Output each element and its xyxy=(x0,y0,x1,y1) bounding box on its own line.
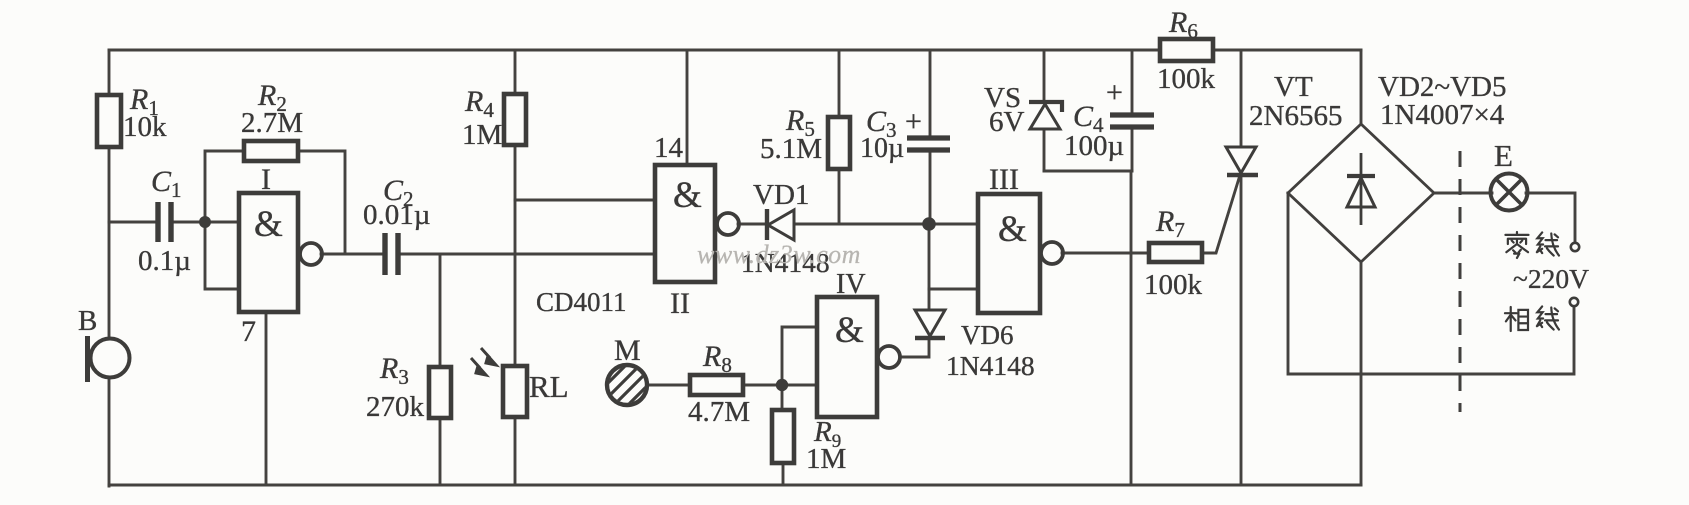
wire VD6 to gate IV output wire xyxy=(900,338,929,357)
svg-text:2.7M: 2.7M xyxy=(241,107,303,139)
wire bridge bottom vertex to bottom rail xyxy=(1360,262,1363,485)
wire pin 7 xyxy=(265,312,268,485)
wire R3 to bottom rail xyxy=(439,418,442,485)
svg-text:III: III xyxy=(989,163,1019,196)
wire R5 top xyxy=(838,50,841,117)
wire bridge right vertex to lamp xyxy=(1434,192,1492,195)
svg-text:1M: 1M xyxy=(806,443,846,475)
motion sensor M xyxy=(595,364,652,414)
svg-text:100k: 100k xyxy=(1157,63,1216,95)
svg-text:E: E xyxy=(1494,138,1513,173)
wire gate IV lower input xyxy=(782,384,817,387)
bridge inner diode xyxy=(1347,153,1375,225)
svg-text:4.7M: 4.7M xyxy=(688,396,750,428)
svg-text:5.1M: 5.1M xyxy=(760,133,822,165)
svg-text:270k: 270k xyxy=(366,391,425,423)
svg-text:CD4011: CD4011 xyxy=(536,287,627,317)
wire node B down to VD6 xyxy=(928,224,931,310)
diode VD1 xyxy=(767,209,794,240)
svg-text:M: M xyxy=(614,334,641,367)
wire VD1 to gate III upper input xyxy=(794,223,978,226)
svg-text:+: + xyxy=(1106,76,1123,109)
svg-text:100k: 100k xyxy=(1144,269,1203,301)
wire left node to C1 xyxy=(109,221,156,224)
capacitor C1 xyxy=(158,202,171,242)
svg-text:B: B xyxy=(78,305,97,337)
wire bridge top vertex xyxy=(1360,50,1363,124)
wire ground drop to bottom rail xyxy=(1130,171,1133,485)
resistor R7 xyxy=(1149,243,1202,262)
node A junction dot xyxy=(199,216,211,228)
resistor R2 xyxy=(244,141,298,161)
wire live terminal to bridge left vertex xyxy=(1288,193,1574,374)
svg-text:VT: VT xyxy=(1274,71,1313,103)
svg-text:14: 14 xyxy=(654,132,684,164)
svg-text:0.01µ: 0.01µ xyxy=(363,199,430,231)
photoresistor RL body xyxy=(503,366,527,417)
svg-text:&: & xyxy=(254,204,283,245)
wire VS bottom xyxy=(1043,129,1046,171)
resistor R9 xyxy=(772,410,794,463)
nand gate IV box xyxy=(817,297,877,417)
wire node A down to gate I lower input xyxy=(205,222,239,289)
wire gate III lower input xyxy=(929,288,978,291)
diode VD6 xyxy=(915,310,945,338)
resistor R8 xyxy=(690,375,743,395)
resistor R1 xyxy=(97,95,121,147)
wire R1 bottom to microphone xyxy=(108,147,111,339)
wire M to R8 xyxy=(647,384,690,387)
nand gate III bubble xyxy=(1041,242,1063,264)
svg-text:1N4007×4: 1N4007×4 xyxy=(1380,99,1505,131)
svg-text:6V: 6V xyxy=(989,106,1025,138)
svg-text:100µ: 100µ xyxy=(1064,130,1124,162)
svg-text:RL: RL xyxy=(529,369,569,404)
resistor R6 xyxy=(1160,39,1213,61)
wire divider node to gate II upper input xyxy=(515,199,655,202)
wire VT anode from top rail xyxy=(1240,50,1243,147)
wire C2 to gate II lower input xyxy=(399,253,655,256)
wire bottom rail xyxy=(109,484,1361,487)
wire R8 to node C xyxy=(743,384,782,387)
svg-text:II: II xyxy=(670,287,690,320)
microphone B xyxy=(88,336,130,382)
wire microphone to bottom rail xyxy=(108,377,111,486)
resistor R3 xyxy=(429,367,451,418)
zener diode VS xyxy=(1029,102,1062,129)
svg-text:10µ: 10µ xyxy=(860,133,904,164)
wire VT cathode to bottom rail xyxy=(1240,175,1243,485)
wire C3 top xyxy=(929,50,932,136)
svg-text:VD1: VD1 xyxy=(753,179,809,211)
svg-text:0.1µ: 0.1µ xyxy=(138,245,191,277)
node C junction dot xyxy=(776,379,788,391)
wire top rail right xyxy=(1213,49,1361,52)
wire R9 to bottom rail xyxy=(782,463,785,485)
wire R7 to thyristor gate xyxy=(1202,175,1240,253)
label lingxian neutral xyxy=(1505,232,1559,258)
svg-text:10k: 10k xyxy=(123,111,167,143)
wire node C down to R9 xyxy=(781,385,784,410)
svg-text:1M: 1M xyxy=(462,119,502,151)
svg-text:1N4148: 1N4148 xyxy=(946,350,1035,381)
wire R4 top xyxy=(514,50,517,94)
wire VS top xyxy=(1043,50,1046,102)
nand gate III box xyxy=(978,194,1040,313)
wire top rail left xyxy=(109,49,1160,52)
svg-text:7: 7 xyxy=(241,315,256,348)
wire R4 to RL xyxy=(514,145,517,366)
capacitor C2 xyxy=(385,233,398,275)
svg-text:&: & xyxy=(673,175,702,216)
wire RL to bottom rail xyxy=(514,417,517,485)
bridge rectifier VD2~VD5 diamond xyxy=(1288,124,1434,262)
wire R2 right to output node xyxy=(298,151,345,254)
svg-text:+: + xyxy=(905,105,922,138)
wire gate III output to R7 xyxy=(1062,252,1149,255)
dashed separation line xyxy=(1459,151,1462,412)
wire C4 bottom xyxy=(1131,129,1134,171)
svg-text:2N6565: 2N6565 xyxy=(1249,100,1342,132)
wire gate IV upper input xyxy=(782,327,817,385)
nand gate IV bubble xyxy=(878,346,900,368)
lamp E xyxy=(1491,174,1528,211)
wire lamp to neutral terminal xyxy=(1526,193,1575,242)
label xiangxian live xyxy=(1505,306,1559,330)
svg-text:~220V: ~220V xyxy=(1513,263,1589,294)
wire top-left corner down to R1 xyxy=(108,50,111,95)
nand gate I box xyxy=(239,193,298,312)
node B junction dot xyxy=(922,217,936,231)
svg-text:IV: IV xyxy=(836,269,866,300)
resistor R5 xyxy=(828,117,850,169)
wire node A up to R2 xyxy=(205,151,244,222)
wire gate I output to C2 xyxy=(321,253,385,256)
svg-text:&: & xyxy=(835,310,864,351)
capacitor C4 polarized xyxy=(1110,115,1154,127)
neutral terminal xyxy=(1571,243,1579,251)
svg-text:www.dz3w.com: www.dz3w.com xyxy=(697,240,861,269)
wire C1 to gate I input xyxy=(173,221,239,224)
svg-text:I: I xyxy=(261,163,271,196)
wire C3 bottom to node B xyxy=(929,152,932,224)
wire R5 bottom to node B xyxy=(838,169,841,224)
capacitor C3 polarized xyxy=(907,138,950,150)
resistor R4 xyxy=(504,94,526,145)
svg-text:&: & xyxy=(998,209,1027,250)
thyristor VT xyxy=(1226,147,1258,175)
wire C4 top xyxy=(1131,50,1134,113)
wire gate II output to VD1 xyxy=(738,223,766,226)
wire R3 branch xyxy=(439,254,442,367)
nand gate I bubble xyxy=(300,243,322,265)
nand gate II bubble xyxy=(717,213,739,235)
photoresistor RL light arrows xyxy=(471,348,496,375)
nand gate II box xyxy=(655,165,715,282)
wire VS C4 ground link xyxy=(1044,170,1132,173)
svg-text:VD6: VD6 xyxy=(961,320,1014,350)
wire pin 14 xyxy=(686,50,689,165)
live terminal xyxy=(1570,298,1578,306)
